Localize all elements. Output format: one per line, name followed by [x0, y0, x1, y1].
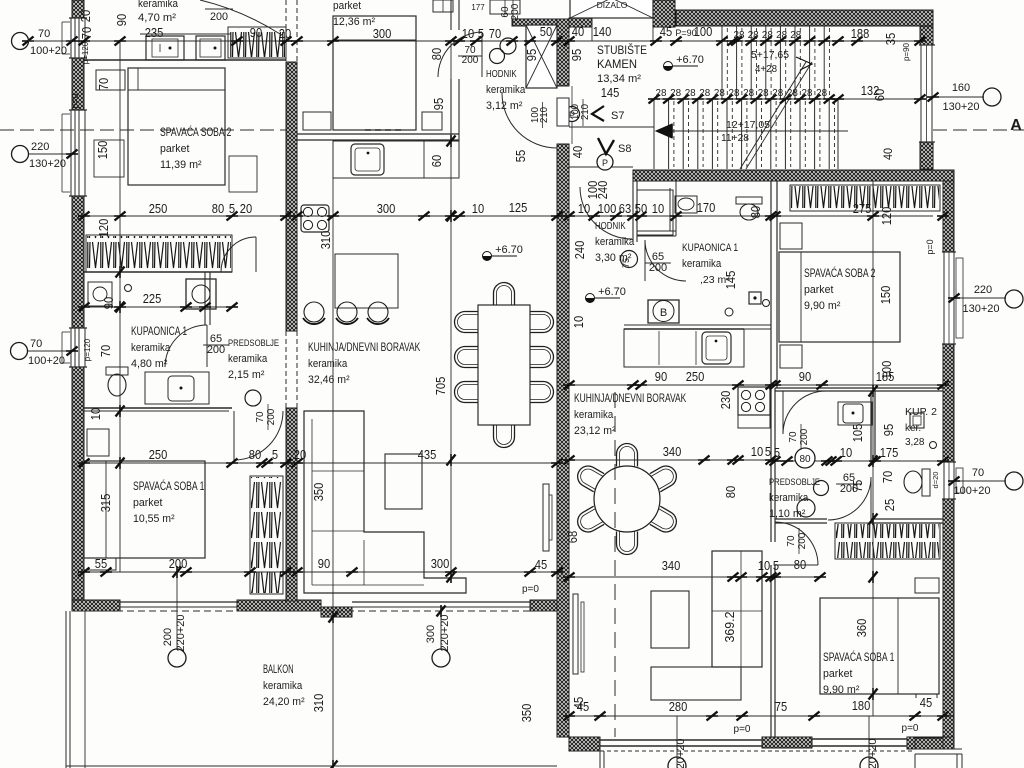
svg-text:60: 60: [872, 89, 887, 101]
svg-text:keramika: keramika: [131, 342, 171, 354]
svg-text:240: 240: [595, 181, 610, 200]
svg-text:90: 90: [250, 25, 262, 40]
svg-text:28: 28: [758, 87, 769, 99]
svg-text:20: 20: [78, 10, 93, 22]
svg-text:10: 10: [571, 316, 586, 328]
svg-text:90: 90: [318, 556, 330, 571]
svg-text:80: 80: [429, 48, 444, 60]
svg-text:10: 10: [578, 201, 590, 216]
svg-text:200: 200: [207, 344, 225, 356]
svg-text:keramika: keramika: [263, 680, 303, 692]
svg-text:P=90: P=90: [675, 28, 696, 38]
svg-text:100+20: 100+20: [28, 355, 65, 367]
svg-text:28: 28: [714, 87, 725, 99]
svg-text:+6.70: +6.70: [598, 286, 626, 298]
svg-text:210: 210: [538, 107, 550, 123]
svg-text:200: 200: [462, 55, 479, 66]
svg-text:9,90 m²: 9,90 m²: [804, 300, 841, 312]
svg-text:KUHINJA/DNEVNI BORAVAK: KUHINJA/DNEVNI BORAVAK: [308, 340, 420, 354]
svg-text:3,12 m²: 3,12 m²: [486, 100, 523, 112]
svg-text:12+17,05: 12+17,05: [726, 120, 770, 131]
svg-text:130+20: 130+20: [962, 303, 999, 315]
svg-text:250: 250: [686, 369, 705, 384]
svg-text:keramika: keramika: [228, 353, 268, 365]
svg-text:28: 28: [656, 87, 667, 99]
svg-text:60: 60: [429, 155, 444, 167]
svg-text:125: 125: [509, 200, 528, 215]
svg-text:10: 10: [472, 201, 484, 216]
svg-text:11,39 m²: 11,39 m²: [160, 159, 202, 171]
svg-text:45: 45: [920, 695, 932, 710]
svg-text:145: 145: [723, 271, 738, 290]
svg-text:BALKON: BALKON: [263, 662, 294, 676]
svg-text:5: 5: [773, 558, 779, 573]
svg-text:68: 68: [565, 531, 580, 543]
svg-text:KUHINJA/DNEVNI BORAVAK: KUHINJA/DNEVNI BORAVAK: [574, 391, 686, 405]
svg-text:240: 240: [572, 241, 587, 260]
svg-text:28: 28: [802, 87, 813, 99]
svg-text:DIZALO: DIZALO: [597, 0, 628, 10]
svg-text:100: 100: [879, 361, 894, 380]
svg-text:25: 25: [882, 499, 897, 511]
svg-text:100+20: 100+20: [953, 485, 990, 497]
svg-text:p=0: p=0: [925, 239, 935, 254]
svg-text:28: 28: [772, 87, 783, 99]
svg-text:4+28: 4+28: [755, 64, 777, 75]
svg-text:20: 20: [240, 201, 252, 216]
svg-text:parket: parket: [804, 284, 833, 296]
svg-text:10: 10: [758, 558, 770, 573]
svg-text:28: 28: [699, 87, 710, 99]
svg-text:435: 435: [418, 447, 437, 462]
svg-text:360: 360: [854, 619, 869, 638]
svg-text:20: 20: [279, 26, 291, 41]
svg-text:4,80 m²: 4,80 m²: [131, 358, 168, 370]
svg-text:p=0: p=0: [522, 584, 539, 595]
svg-text:50: 50: [635, 201, 647, 216]
svg-text:2,15 m²: 2,15 m²: [228, 369, 265, 381]
svg-text:200: 200: [169, 556, 188, 571]
svg-text:23,12 m²: 23,12 m²: [574, 425, 616, 437]
svg-text:200: 200: [649, 262, 667, 274]
svg-text:315: 315: [98, 494, 113, 513]
svg-text:parket: parket: [160, 143, 189, 155]
svg-text:90: 90: [655, 369, 667, 384]
svg-text:28: 28: [748, 29, 759, 41]
svg-text:70: 70: [972, 467, 984, 479]
svg-text:160: 160: [952, 82, 970, 94]
svg-text:STUBIŠTE: STUBIŠTE: [597, 42, 647, 57]
svg-text:70: 70: [880, 471, 895, 483]
svg-text:12,36 m²: 12,36 m²: [333, 16, 375, 28]
svg-text:310: 310: [318, 231, 333, 250]
svg-text:PREDSOBLJE: PREDSOBLJE: [769, 477, 820, 488]
svg-text:40: 40: [572, 24, 584, 39]
svg-text:28: 28: [729, 87, 740, 99]
svg-text:340: 340: [663, 444, 682, 459]
svg-text:keramika: keramika: [308, 358, 348, 370]
svg-text:235: 235: [145, 25, 164, 40]
svg-text:13,34 m²: 13,34 m²: [597, 73, 641, 85]
svg-text:parket: parket: [333, 0, 361, 12]
svg-text:100+20: 100+20: [30, 45, 67, 57]
svg-text:220: 220: [974, 284, 992, 296]
svg-text:10: 10: [840, 445, 852, 460]
svg-text:80: 80: [723, 486, 738, 498]
svg-text:10: 10: [751, 444, 763, 459]
svg-text:keramika: keramika: [574, 409, 614, 421]
svg-text:225: 225: [143, 291, 162, 306]
svg-text:230: 230: [718, 391, 733, 410]
svg-text:63: 63: [619, 201, 631, 216]
svg-text:175: 175: [880, 445, 899, 460]
svg-text:32,46 m²: 32,46 m²: [308, 374, 350, 386]
svg-text:28: 28: [776, 29, 787, 41]
svg-text:SPAVAĆA SOBA 1: SPAVAĆA SOBA 1: [823, 649, 895, 664]
svg-text:SPAVAĆA SOBA 1: SPAVAĆA SOBA 1: [133, 478, 205, 493]
svg-text:130+20: 130+20: [29, 158, 66, 170]
svg-text:p=90: p=90: [902, 42, 911, 61]
svg-text:5: 5: [478, 26, 484, 41]
svg-text:parket: parket: [823, 668, 852, 680]
svg-text:keramika: keramika: [595, 236, 635, 248]
svg-text:150: 150: [878, 286, 893, 305]
svg-text:40: 40: [881, 148, 895, 160]
svg-text:200: 200: [510, 3, 521, 20]
svg-text:70: 70: [788, 431, 799, 443]
svg-text:177: 177: [471, 3, 485, 12]
svg-text:28: 28: [734, 29, 745, 41]
svg-text:150: 150: [95, 141, 110, 160]
svg-text:PREDSOBLJE: PREDSOBLJE: [228, 338, 279, 348]
svg-text:70: 70: [38, 28, 50, 40]
svg-text:28: 28: [743, 87, 754, 99]
svg-text:200: 200: [162, 628, 174, 646]
svg-text:KUPAONICA 1: KUPAONICA 1: [131, 324, 187, 338]
svg-text:90: 90: [114, 14, 129, 26]
svg-text:p=0: p=0: [70, 93, 80, 108]
svg-text:70: 70: [30, 338, 42, 350]
svg-text:188: 188: [851, 26, 870, 41]
svg-text:keramika: keramika: [486, 84, 526, 96]
svg-text:40: 40: [570, 146, 585, 158]
svg-text:10,55 m²: 10,55 m²: [133, 513, 175, 525]
svg-text:100: 100: [598, 201, 617, 216]
svg-text:keramika: keramika: [682, 258, 722, 270]
svg-text:5: 5: [765, 444, 771, 459]
svg-text:95: 95: [524, 49, 539, 61]
svg-text:KUP. 2: KUP. 2: [905, 406, 937, 418]
svg-text:120: 120: [879, 207, 894, 226]
svg-text:300: 300: [431, 556, 450, 571]
svg-text:50: 50: [540, 24, 552, 39]
svg-text:90: 90: [799, 369, 811, 384]
svg-text:p=0: p=0: [902, 723, 919, 734]
svg-text:140: 140: [593, 24, 612, 39]
svg-text:S7: S7: [611, 110, 624, 122]
svg-text:28: 28: [787, 87, 798, 99]
svg-text:SPAVAĆA SOBA 2: SPAVAĆA SOBA 2: [160, 124, 232, 139]
svg-text:80: 80: [748, 206, 763, 218]
svg-text:70: 70: [489, 26, 501, 41]
svg-text:275: 275: [853, 201, 872, 216]
svg-text:200: 200: [840, 483, 858, 495]
svg-text:80: 80: [794, 557, 806, 572]
svg-text:300: 300: [373, 26, 392, 41]
svg-text:369.2: 369.2: [722, 612, 737, 643]
svg-text:5: 5: [229, 201, 235, 216]
svg-text:200: 200: [210, 11, 228, 23]
svg-text:28: 28: [685, 87, 696, 99]
svg-text:keramika: keramika: [138, 0, 179, 10]
svg-text:28: 28: [790, 29, 801, 41]
svg-text:90: 90: [101, 297, 116, 309]
svg-text:95: 95: [881, 424, 896, 436]
svg-text:+6.70: +6.70: [495, 244, 523, 256]
svg-text:28: 28: [670, 87, 681, 99]
svg-text:S8: S8: [618, 143, 631, 155]
svg-text:105: 105: [850, 424, 865, 443]
svg-text:350: 350: [519, 704, 534, 723]
svg-text:1,10 m²: 1,10 m²: [769, 508, 806, 520]
svg-text:3,28: 3,28: [905, 437, 925, 448]
svg-text:45: 45: [660, 24, 672, 39]
svg-text:P: P: [602, 158, 608, 168]
svg-text:340: 340: [662, 558, 681, 573]
svg-text:HODNIK: HODNIK: [595, 220, 626, 232]
svg-text:ker.: ker.: [905, 423, 921, 434]
svg-text:11+28: 11+28: [721, 133, 749, 144]
svg-text:280: 280: [669, 699, 688, 714]
svg-text:24,20 m²: 24,20 m²: [263, 696, 305, 708]
svg-text:130+20: 130+20: [942, 101, 979, 113]
svg-text:55: 55: [513, 150, 528, 162]
svg-text:HODNIK: HODNIK: [486, 68, 517, 80]
svg-text:250: 250: [149, 447, 168, 462]
svg-text:75: 75: [621, 258, 631, 268]
svg-text:5: 5: [774, 445, 780, 460]
svg-text:4,70 m²: 4,70 m²: [138, 12, 176, 24]
svg-text:28: 28: [762, 29, 773, 41]
svg-text:45: 45: [535, 557, 547, 572]
svg-text:250: 250: [149, 201, 168, 216]
svg-text:180: 180: [852, 698, 871, 713]
svg-text:300: 300: [377, 201, 396, 216]
svg-text:10: 10: [652, 201, 664, 216]
svg-text:B: B: [660, 307, 667, 319]
svg-text:310: 310: [311, 694, 326, 713]
svg-text:KAMEN: KAMEN: [597, 57, 637, 71]
svg-text:keramika: keramika: [769, 492, 809, 504]
svg-text:10: 10: [88, 408, 103, 420]
svg-text:10: 10: [462, 26, 474, 41]
svg-text:d=20: d=20: [931, 472, 940, 489]
svg-text:p=120: p=120: [83, 338, 92, 361]
svg-text:p=0: p=0: [734, 724, 751, 735]
svg-text:95: 95: [569, 49, 584, 61]
svg-text:35: 35: [883, 33, 898, 45]
svg-text:80: 80: [799, 454, 811, 465]
svg-text:80: 80: [249, 447, 261, 462]
svg-text:5: 5: [272, 447, 278, 462]
svg-text:p=120: p=120: [81, 41, 90, 64]
svg-text:70: 70: [79, 27, 94, 39]
svg-text:20: 20: [294, 447, 306, 462]
svg-text:705: 705: [433, 377, 448, 396]
svg-text:parket: parket: [133, 497, 162, 509]
svg-text:70: 70: [786, 535, 797, 547]
svg-text:SPAVAĆA SOBA 2: SPAVAĆA SOBA 2: [804, 265, 876, 280]
svg-text:70: 70: [98, 345, 113, 357]
svg-text:120: 120: [96, 219, 111, 238]
svg-text:220+20: 220+20: [175, 614, 187, 651]
svg-text:70: 70: [96, 78, 111, 90]
svg-text:A: A: [1010, 117, 1022, 134]
svg-text:220: 220: [31, 141, 49, 153]
svg-text:55: 55: [95, 556, 107, 571]
svg-text:+6.70: +6.70: [676, 54, 704, 66]
svg-text:300: 300: [425, 625, 437, 643]
svg-text:350: 350: [311, 483, 326, 502]
svg-text:KUPAONICA 1: KUPAONICA 1: [682, 242, 738, 254]
svg-text:70: 70: [255, 411, 266, 423]
svg-text:210: 210: [579, 104, 591, 120]
svg-text:220+20: 220+20: [439, 614, 451, 651]
svg-text:28: 28: [816, 87, 827, 99]
svg-text:5+17,65: 5+17,65: [751, 50, 789, 61]
svg-text:145: 145: [601, 85, 620, 100]
svg-text:9,90 m²: 9,90 m²: [823, 684, 860, 696]
svg-text:75: 75: [775, 699, 787, 714]
svg-text:45: 45: [571, 697, 586, 709]
svg-text:80: 80: [212, 201, 224, 216]
svg-text:170: 170: [697, 200, 716, 215]
svg-text:95: 95: [431, 98, 446, 110]
